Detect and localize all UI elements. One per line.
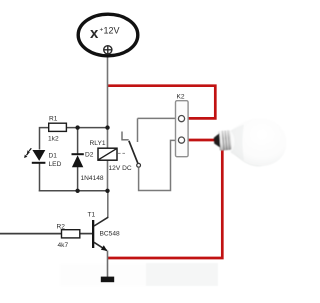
wire: D2 bottom lead [77, 167, 79, 191]
svg-text:1k2: 1k2 [48, 136, 59, 143]
wire red: lamp base to emitter node [108, 146, 223, 258]
svg-text:12V: 12V [104, 26, 120, 36]
junction node bottom-left (D2) [75, 189, 79, 193]
wire: LED cathode down to bottom node [39, 164, 41, 192]
wire: bottom node horizontal [39, 190, 108, 192]
svg-text:D2: D2 [85, 152, 94, 159]
wire: +12V rail [107, 55, 109, 149]
switch pivot stub [122, 132, 129, 140]
junction node top-left (D2/R1) [75, 125, 79, 129]
svg-text:D1: D1 [49, 153, 58, 160]
diode D2 1N4148 [72, 154, 84, 167]
svg-text:K2: K2 [177, 94, 185, 101]
LED D1 [32, 150, 46, 164]
wire: D2 top lead [77, 128, 79, 155]
svg-text:BC548: BC548 [100, 231, 120, 238]
svg-text:12V DC: 12V DC [109, 165, 132, 172]
wire red: K2 bottom terminal to lamp tip [187, 139, 216, 142]
connector K2 [176, 101, 189, 157]
wire: switch fixed contact vertical [137, 118, 139, 142]
lamp bulb [214, 118, 287, 166]
wire: switch output U-path to K2 bottom terminal [139, 140, 176, 190]
wire: top node horizontal (R1 to rail) [66, 127, 108, 129]
switch arm of relay contact [129, 141, 138, 163]
wire: emitter down to ground [107, 251, 109, 278]
svg-text:1N4148: 1N4148 [81, 175, 104, 182]
resistor R2 [62, 230, 80, 238]
wire: R2 to base [80, 233, 93, 235]
resistor R1 [49, 123, 67, 131]
wire: switch top horizontal to K2 [138, 117, 177, 119]
power supply plus terminal symbol [104, 46, 112, 54]
wire red: +12V rail to K2 top terminal [108, 86, 216, 119]
glass envelope [231, 118, 287, 166]
svg-text:T1: T1 [88, 212, 96, 219]
wire: relay coil bottom to bottom node [107, 160, 109, 191]
ground [101, 277, 114, 283]
transistor T1 BC548 [92, 217, 108, 251]
svg-text:R2: R2 [57, 224, 66, 231]
wire: collector vertical [107, 191, 109, 218]
svg-text:LED: LED [49, 161, 62, 168]
dashed mechanical link coil to contact [118, 152, 126, 154]
switch contact circle [137, 163, 141, 167]
screw cap [218, 130, 231, 151]
svg-text:R1: R1 [49, 116, 58, 123]
cap tip contact [214, 133, 221, 147]
relay coil RLY1 [98, 148, 117, 160]
scan smudge band bottom [60, 263, 218, 286]
svg-text:4k7: 4k7 [58, 242, 69, 249]
svg-text:x: x [90, 25, 99, 42]
wire: base wire from left edge [0, 233, 62, 235]
wire: R1 left lead down to LED [40, 128, 50, 150]
svg-text:RLY1: RLY1 [90, 140, 106, 147]
junction node bottom-right (coil/collector) [105, 189, 109, 193]
glass bottom shading [236, 155, 265, 166]
power supply X1 ellipse [78, 14, 138, 56]
glass neck shading [231, 124, 245, 160]
LED arrows [24, 148, 31, 158]
junction node top-right (rail) [105, 125, 109, 129]
